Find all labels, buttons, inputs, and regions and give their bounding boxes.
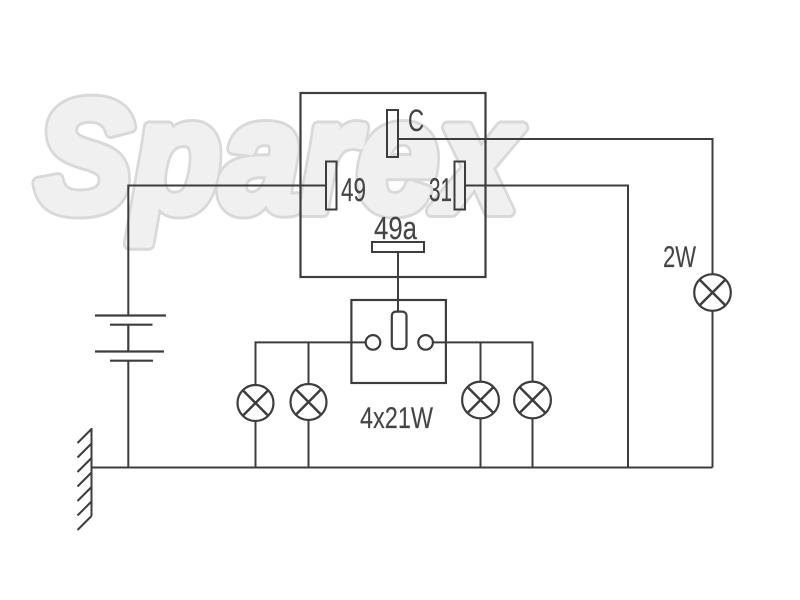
lamp 2W [694, 274, 731, 311]
wire 49a to switch [397, 252, 399, 312]
switch actuator [392, 312, 407, 349]
svg-text:49: 49 [341, 171, 366, 208]
ground bus wire [92, 467, 713, 469]
wire branch lamp L2 [308, 342, 310, 384]
switch contact left [366, 335, 381, 350]
terminal 49 pin [326, 162, 337, 210]
wire lamp L3 to bus [480, 418, 482, 467]
wire 31 down right [465, 186, 628, 468]
wire battery to bus [127, 361, 129, 468]
lamp L2 [291, 384, 327, 420]
wire lamp 2W to bus [712, 311, 714, 468]
lamp L4 [514, 382, 551, 419]
terminal 49a pin [372, 242, 424, 252]
lamp L3 [462, 382, 499, 419]
switch box S1 [351, 300, 446, 383]
lamp L1 [238, 385, 274, 421]
terminal C pin [387, 110, 398, 157]
svg-text:31: 31 [429, 171, 452, 208]
watermark Sparex logo [36, 69, 524, 245]
wire switch to right lamps [433, 342, 533, 381]
wire branch lamp L3 [480, 342, 482, 381]
wire 49 to battery [128, 186, 326, 316]
svg-text:C: C [408, 103, 424, 138]
wire lamp L1 to bus [255, 421, 257, 468]
ground [78, 428, 92, 530]
wire C to right [398, 139, 713, 274]
svg-text:2W: 2W [663, 241, 697, 274]
svg-text:49a: 49a [374, 210, 417, 246]
svg-text:Sparex: Sparex [36, 69, 524, 245]
svg-text:4x21W: 4x21W [360, 402, 434, 435]
wire lamp L4 to bus [532, 418, 534, 467]
relay box U1 [301, 93, 486, 277]
battery BT1 [95, 316, 166, 361]
wire switch to left lamps [256, 342, 366, 385]
wire lamp L2 to bus [308, 420, 310, 468]
terminal 31 pin [455, 162, 466, 210]
switch contact right [418, 335, 433, 350]
